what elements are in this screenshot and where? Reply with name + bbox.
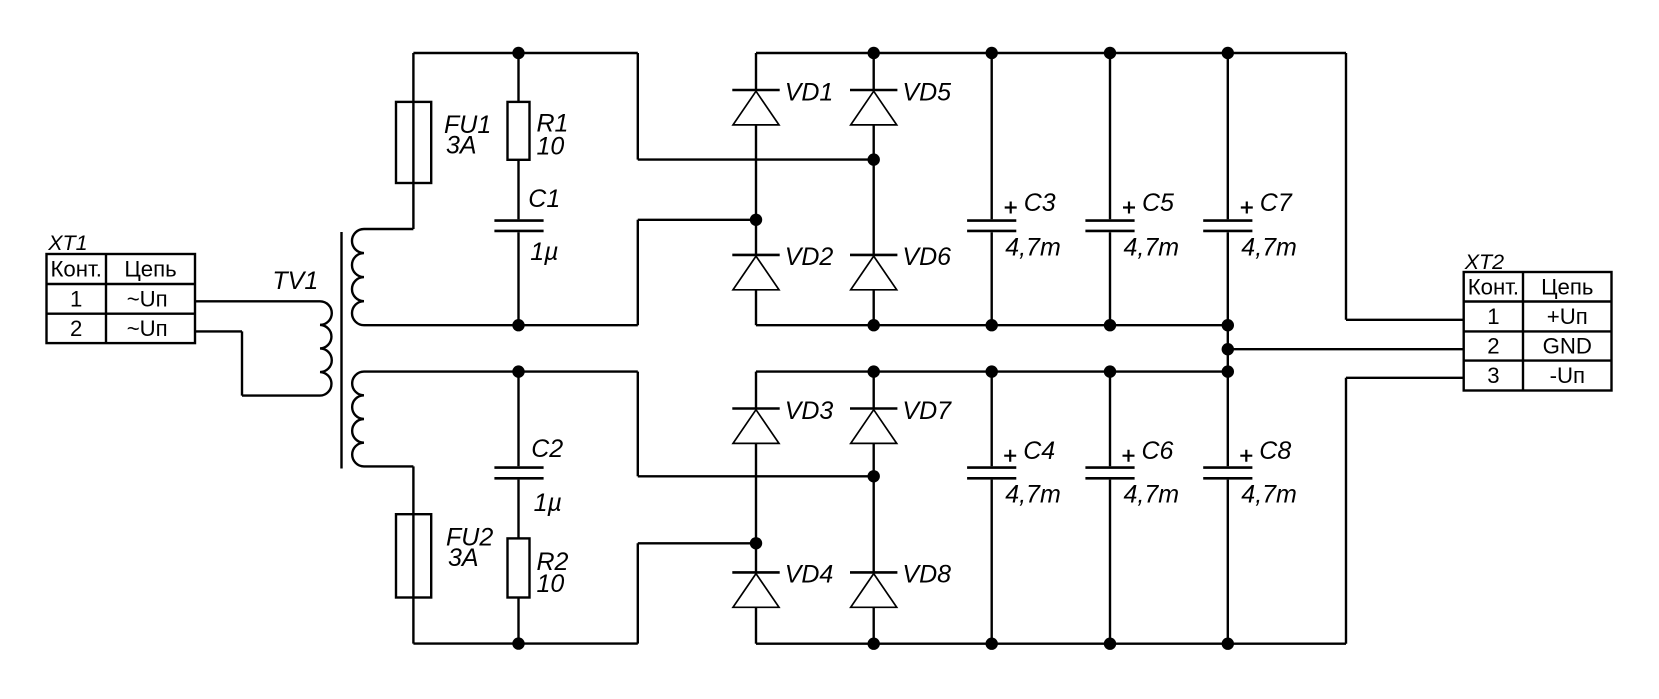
wire VD2 cathode lead bbox=[755, 220, 757, 255]
wire XT1 pin2 horizontal bbox=[195, 330, 242, 332]
capacitor C2 bbox=[494, 468, 543, 479]
wire top rail left segment bbox=[413, 52, 637, 54]
wire C4 top lead bbox=[991, 372, 993, 467]
wire VD5 anode lead bbox=[873, 125, 875, 160]
wire C8 bottom lead bbox=[1227, 480, 1229, 644]
wire to VD7-VD8 node bbox=[638, 475, 874, 477]
junction C1 / bottom rail bbox=[512, 319, 524, 331]
junction C8 / upper rail bbox=[1222, 365, 1234, 377]
junction R2 / bottom rail bbox=[512, 637, 524, 649]
capacitor C5 bbox=[1085, 221, 1134, 231]
wire C8 top lead bbox=[1227, 372, 1229, 467]
wire C6 bottom lead bbox=[1109, 480, 1111, 644]
capacitor C4 bbox=[967, 468, 1016, 479]
svg-text:C3: C3 bbox=[1024, 189, 1056, 217]
junction VD1-VD2 node A bbox=[750, 214, 762, 226]
polarity plus of C8 bbox=[1240, 450, 1252, 462]
diode VD4 bbox=[732, 572, 779, 607]
wire secondary2 bottom lead bbox=[364, 465, 413, 467]
svg-text:4,7m: 4,7m bbox=[1124, 481, 1180, 509]
junction VD7-VD8 node D bbox=[868, 470, 880, 482]
wire VD7 anode lead bbox=[873, 443, 875, 476]
junction top rail / R1 bbox=[512, 47, 524, 59]
junction VD5 cathode / rail bbox=[868, 47, 880, 59]
svg-text:3A: 3A bbox=[446, 132, 477, 160]
diode VD8 bbox=[850, 572, 897, 607]
wire C4 bottom lead bbox=[991, 480, 993, 644]
svg-text:VD2: VD2 bbox=[785, 243, 834, 271]
polarity plus of C5 bbox=[1123, 202, 1135, 214]
junction C4 / negative rail bbox=[986, 638, 998, 650]
connector XT2 table bbox=[1464, 272, 1612, 391]
svg-text:VD7: VD7 bbox=[902, 397, 952, 425]
junction C5 / lower rail bbox=[1104, 319, 1116, 331]
diode VD7 bbox=[850, 409, 897, 444]
svg-text:~Uп: ~Uп bbox=[127, 287, 168, 312]
wire VD1 cathode lead bbox=[755, 53, 757, 90]
svg-text:4,7m: 4,7m bbox=[1005, 234, 1061, 262]
wire right drop secondary2 bbox=[637, 372, 639, 477]
polarity plus of C3 bbox=[1005, 202, 1017, 214]
svg-text:VD4: VD4 bbox=[785, 561, 834, 589]
wire VD2 anode lead bbox=[755, 290, 757, 325]
fuse FU1 bbox=[396, 102, 431, 183]
wire C2 top lead bbox=[517, 372, 519, 467]
wire positive rail drop to XT2 bbox=[1345, 53, 1347, 320]
wire VD3 cathode lead bbox=[755, 372, 757, 409]
svg-text:VD6: VD6 bbox=[902, 243, 951, 271]
junction C3 / positive rail bbox=[986, 47, 998, 59]
svg-text:4,7m: 4,7m bbox=[1241, 234, 1297, 262]
svg-text:1: 1 bbox=[1487, 304, 1499, 329]
resistor R2 bbox=[508, 538, 530, 597]
resistor R1 bbox=[508, 102, 530, 160]
wire C1 bottom lead bbox=[517, 232, 519, 325]
junction C6 / upper rail bbox=[1104, 365, 1116, 377]
junction VD6 / lower rail bbox=[868, 319, 880, 331]
wire VD7 cathode lead bbox=[873, 372, 875, 409]
svg-text:VD3: VD3 bbox=[785, 397, 834, 425]
wire top bridge positive rail bbox=[756, 52, 1346, 54]
transformer TV1 primary winding bbox=[320, 301, 332, 395]
capacitor C8 bbox=[1203, 468, 1252, 479]
wire C7 bottom lead bbox=[1227, 232, 1229, 325]
wire VD5 cathode lead bbox=[873, 53, 875, 90]
wire C3 bottom lead bbox=[991, 232, 993, 325]
wire C5 bottom lead bbox=[1109, 232, 1111, 325]
svg-text:C1: C1 bbox=[528, 185, 560, 213]
svg-text:TV1: TV1 bbox=[272, 267, 318, 295]
svg-text:C5: C5 bbox=[1142, 189, 1174, 217]
svg-text:C2: C2 bbox=[531, 435, 563, 463]
svg-text:VD1: VD1 bbox=[785, 78, 834, 106]
wire VD8 cathode lead bbox=[873, 476, 875, 572]
svg-text:-Uп: -Uп bbox=[1550, 363, 1585, 388]
svg-text:2: 2 bbox=[70, 316, 82, 341]
svg-text:+Uп: +Uп bbox=[1547, 304, 1588, 329]
wire secondary2 top rail bbox=[364, 370, 638, 372]
wire to VD1-VD2 node bbox=[638, 219, 756, 221]
wire GND to XT2 pin2 bbox=[1228, 348, 1464, 350]
svg-text:1µ: 1µ bbox=[530, 238, 558, 266]
connector XT1 table bbox=[47, 254, 196, 343]
svg-text:Цепь: Цепь bbox=[1541, 274, 1593, 299]
wire XT1 pin2 vertical bbox=[241, 331, 243, 395]
wire VD1 anode lead bbox=[755, 125, 757, 220]
wire VD4 cathode lead bbox=[755, 543, 757, 572]
fuse FU2 bbox=[396, 514, 431, 597]
polarity plus of C4 bbox=[1004, 450, 1016, 462]
wire riser from bottom rail bbox=[637, 220, 639, 325]
wire VD6 cathode lead bbox=[873, 160, 875, 255]
wire C7 top lead bbox=[1227, 53, 1229, 219]
wire R1 top lead bbox=[517, 53, 519, 102]
capacitor C6 bbox=[1085, 468, 1134, 479]
svg-text:4,7m: 4,7m bbox=[1241, 481, 1297, 509]
capacitor C7 bbox=[1203, 221, 1252, 231]
junction C8 / negative rail bbox=[1222, 638, 1234, 650]
svg-text:XT2: XT2 bbox=[1464, 250, 1504, 274]
svg-text:C4: C4 bbox=[1023, 437, 1055, 465]
junction C5 / positive rail bbox=[1104, 47, 1116, 59]
wire to VD3-VD4 node bbox=[638, 542, 756, 544]
wire R2 bottom lead bbox=[517, 598, 519, 644]
wire XT1 pin1 to TV1 primary top bbox=[195, 300, 320, 302]
svg-text:Конт.: Конт. bbox=[51, 257, 102, 282]
wire riser from bottom-left rail bbox=[637, 543, 639, 643]
wire R1 to C1 bbox=[517, 160, 519, 220]
svg-text:C8: C8 bbox=[1259, 437, 1291, 465]
wire secondary1 top lead bbox=[364, 228, 413, 230]
svg-text:1: 1 bbox=[70, 287, 82, 312]
wire FU2 column bbox=[412, 466, 414, 643]
wire VD4 anode lead bbox=[755, 607, 757, 643]
diode VD2 bbox=[732, 255, 779, 290]
wire VD8 anode lead bbox=[873, 607, 875, 643]
wire C6 top lead bbox=[1109, 372, 1111, 467]
junction VD8 / negative rail bbox=[868, 638, 880, 650]
wire VD3 anode lead bbox=[755, 443, 757, 543]
svg-text:VD8: VD8 bbox=[902, 561, 951, 589]
junction VD7 / upper rail bbox=[868, 365, 880, 377]
wire FU1 column bbox=[412, 53, 414, 229]
wire to VD5-VD6 node bbox=[638, 158, 874, 160]
junction VD3-VD4 node C bbox=[750, 537, 762, 549]
diode VD6 bbox=[850, 255, 897, 290]
svg-text:Конт.: Конт. bbox=[1468, 274, 1519, 299]
junction C2 / top rail bbox=[512, 365, 524, 377]
capacitor C1 bbox=[494, 221, 543, 231]
svg-text:10: 10 bbox=[537, 570, 565, 598]
svg-text:C7: C7 bbox=[1260, 189, 1293, 217]
svg-text:10: 10 bbox=[537, 133, 565, 161]
wire secondary1 bottom rail bbox=[364, 324, 638, 326]
polarity plus of C7 bbox=[1241, 202, 1253, 214]
wire negative rail riser to XT2 bbox=[1345, 378, 1347, 644]
wire GND link between rails bbox=[1227, 325, 1229, 371]
svg-text:4,7m: 4,7m bbox=[1124, 234, 1180, 262]
polarity plus of C6 bbox=[1123, 450, 1135, 462]
wire bottom bridge upper rail bbox=[756, 370, 1228, 372]
wire C2 to R2 bbox=[517, 480, 519, 539]
junction VD5-VD6 node B bbox=[868, 153, 880, 165]
transformer TV1 secondary winding lower bbox=[352, 372, 364, 467]
junction GND tap bbox=[1222, 343, 1234, 355]
capacitor C3 bbox=[967, 221, 1016, 231]
svg-text:VD5: VD5 bbox=[902, 78, 951, 106]
wire +Uп to XT2 pin1 bbox=[1346, 319, 1464, 321]
wire VD6 anode lead bbox=[873, 290, 875, 325]
diode VD5 bbox=[850, 90, 897, 125]
wire -Uп to XT2 pin3 bbox=[1346, 377, 1464, 379]
transformer TV1 secondary winding upper bbox=[352, 229, 364, 325]
diode VD1 bbox=[732, 90, 779, 125]
svg-text:C6: C6 bbox=[1142, 437, 1174, 465]
wire C3 top lead bbox=[991, 53, 993, 219]
transformer TV1 core bbox=[340, 232, 342, 469]
svg-text:GND: GND bbox=[1543, 334, 1592, 359]
wire to TV1 primary bottom bbox=[242, 394, 320, 396]
svg-text:Цепь: Цепь bbox=[124, 257, 176, 282]
junction C7 / lower rail bbox=[1222, 319, 1234, 331]
svg-text:3: 3 bbox=[1487, 363, 1499, 388]
wire top bridge lower rail bbox=[756, 324, 1228, 326]
junction C7 / positive rail bbox=[1222, 47, 1234, 59]
junction C4 / upper rail bbox=[986, 365, 998, 377]
svg-text:2: 2 bbox=[1487, 334, 1499, 359]
junction C3 / lower rail bbox=[986, 319, 998, 331]
svg-text:3A: 3A bbox=[448, 544, 479, 572]
svg-text:XT1: XT1 bbox=[47, 231, 87, 255]
junction C6 / negative rail bbox=[1104, 638, 1116, 650]
wire bottom bridge negative rail bbox=[756, 643, 1346, 645]
svg-text:~Uп: ~Uп bbox=[127, 316, 168, 341]
wire right drop from top rail bbox=[637, 53, 639, 160]
svg-text:1µ: 1µ bbox=[534, 489, 562, 517]
wire bottom rail left segment bbox=[413, 642, 637, 644]
svg-text:4,7m: 4,7m bbox=[1005, 481, 1061, 509]
diode VD3 bbox=[732, 409, 779, 444]
wire C5 top lead bbox=[1109, 53, 1111, 219]
